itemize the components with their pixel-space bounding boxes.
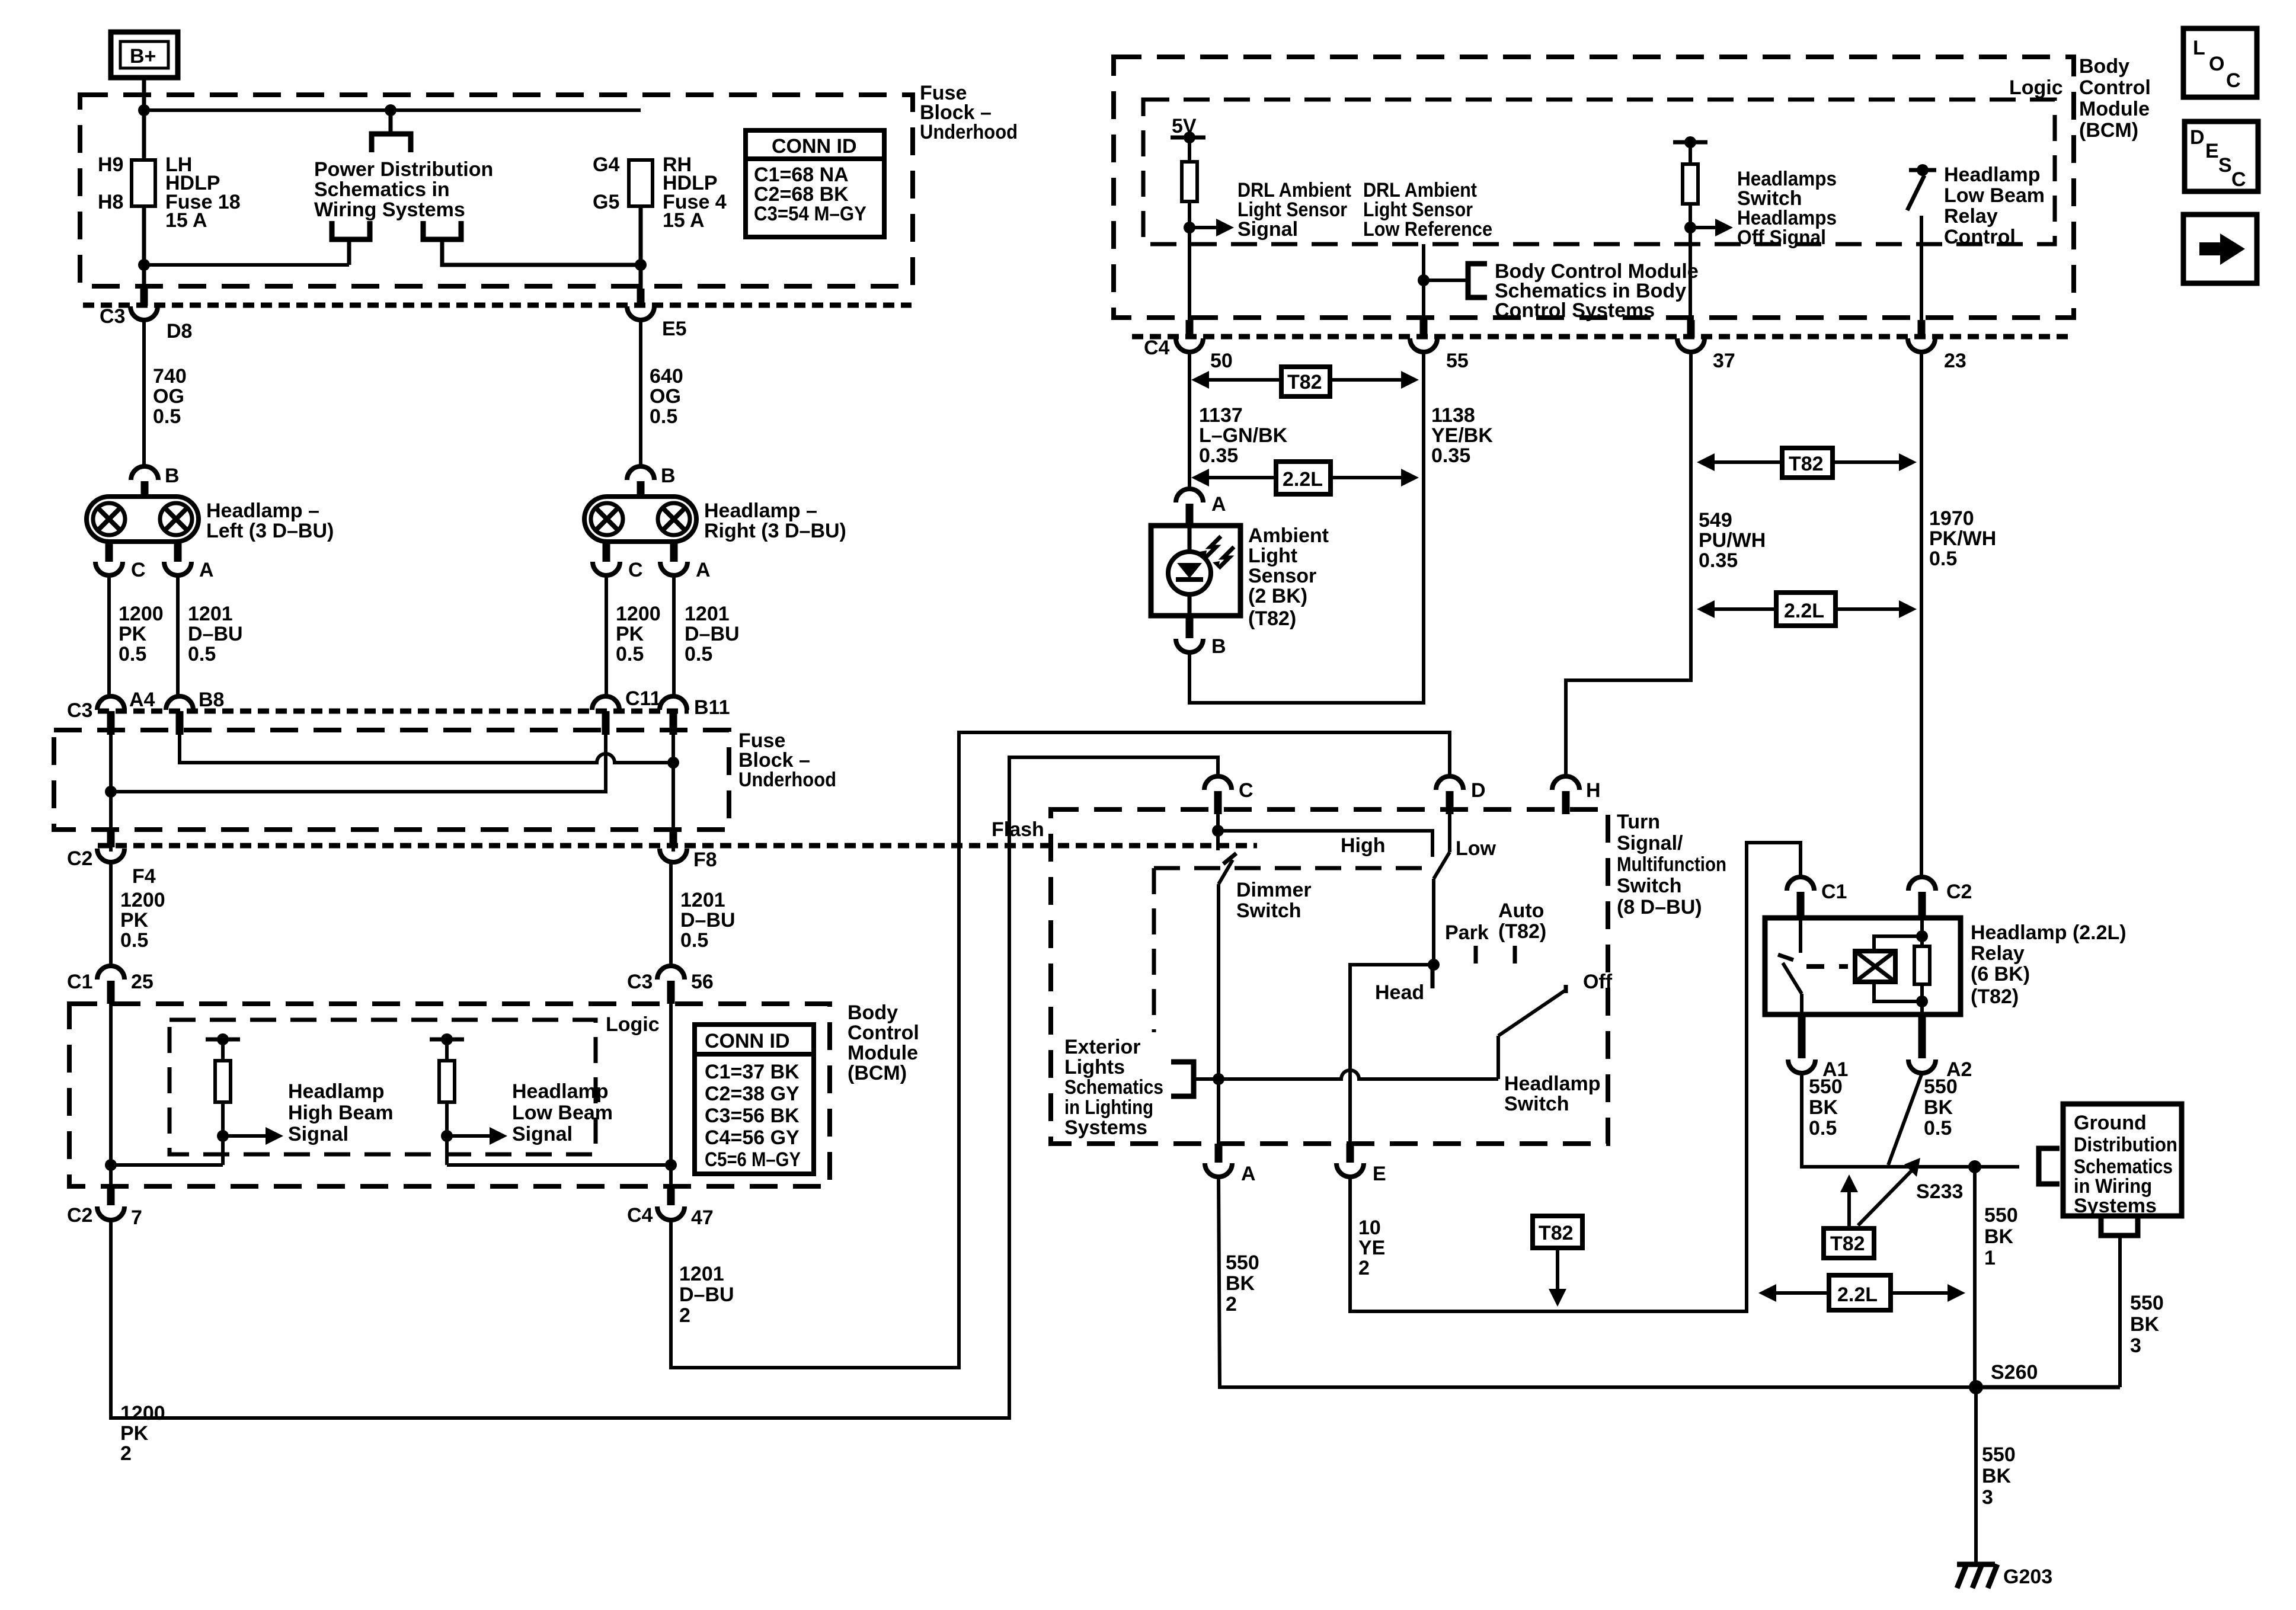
svg-text:Lights: Lights xyxy=(1064,1056,1125,1078)
stub C3/56 xyxy=(667,981,675,1004)
svg-text:550: 550 xyxy=(1924,1076,1958,1098)
svg-text:B: B xyxy=(1211,635,1226,658)
svg-text:S: S xyxy=(2218,154,2232,177)
lamp headlamp right (capsule) xyxy=(584,497,696,542)
svg-text:T82: T82 xyxy=(1789,453,1824,475)
wire 740 OG left headlamp feed xyxy=(142,320,146,466)
arrow headlamp high beam signal xyxy=(223,1127,283,1145)
value label 1138 YE/BK 0.35 xyxy=(1431,404,1493,467)
lamp headlamp left (capsule) xyxy=(87,497,199,542)
svg-text:D–BU: D–BU xyxy=(685,623,740,645)
node low beam signal tap xyxy=(441,1130,453,1142)
label Body Control Module (BCM) bottom xyxy=(848,1001,919,1084)
value label 550 BK 1 xyxy=(1984,1204,2018,1269)
relay actuation dashed link xyxy=(1806,964,1848,969)
svg-text:37: 37 xyxy=(1713,350,1735,372)
svg-text:C: C xyxy=(2231,168,2246,191)
svg-text:B: B xyxy=(165,465,180,487)
svg-text:(BCM): (BCM) xyxy=(848,1062,907,1084)
wire 1201 D-BU 2 (BCM to dimmer D) xyxy=(671,732,1450,1368)
svg-text:H: H xyxy=(1586,779,1601,802)
svg-text:Distribution: Distribution xyxy=(2074,1134,2177,1156)
stub H switch xyxy=(1562,791,1570,814)
svg-text:10: 10 xyxy=(1358,1217,1381,1239)
wire 1201 D-BU left high beam xyxy=(176,575,180,697)
value label 1201 D-BU 0.5 (right) xyxy=(685,603,740,665)
wire 10 YE 2 (E to relay C1) xyxy=(1350,843,1801,1311)
connector C3/A4 xyxy=(97,696,124,710)
svg-text:D: D xyxy=(1471,779,1486,802)
wire bracket stub left xyxy=(347,239,351,265)
svg-text:B11: B11 xyxy=(694,696,730,719)
label Turn Signal/Multifunction Switch (8 D-BU) xyxy=(1617,811,1726,918)
stub C11 xyxy=(602,711,610,735)
connector row 3 (dotted) xyxy=(98,843,1257,849)
connector 23 xyxy=(1908,338,1935,352)
svg-text:Schematics: Schematics xyxy=(1064,1076,1163,1099)
stub D switch xyxy=(1446,791,1454,814)
svg-text:Logic: Logic xyxy=(606,1013,660,1036)
connector E switch xyxy=(1336,1163,1364,1177)
stub C1/25 xyxy=(107,981,115,1004)
svg-text:A: A xyxy=(1241,1163,1256,1185)
node headlamps off signal tap xyxy=(1684,222,1696,233)
wire 1201 D-BU to BCM C3 xyxy=(669,862,673,968)
connector H multifunction switch xyxy=(1552,776,1579,790)
stub A4 xyxy=(107,711,115,735)
svg-text:CONN ID: CONN ID xyxy=(772,135,857,158)
stub C right lamp xyxy=(603,542,610,562)
svg-text:A: A xyxy=(696,559,711,581)
wire 550 BK 3 (box to S260) xyxy=(2118,1235,2122,1387)
stub A switch xyxy=(1215,1144,1223,1163)
svg-text:L–GN/BK: L–GN/BK xyxy=(1199,424,1288,447)
wire 1200 PK 2 (BCM to dimmer common C) xyxy=(111,757,1218,1418)
svg-text:15 A: 15 A xyxy=(663,209,705,232)
svg-text:A4: A4 xyxy=(129,689,155,711)
svg-text:Ground: Ground xyxy=(2074,1112,2147,1134)
bracket exterior lights xyxy=(1171,1062,1194,1096)
label Headlamp - Right (3 D-BU) xyxy=(704,500,846,542)
CONN ID table fuse block xyxy=(746,130,884,237)
stub connector 23 xyxy=(1918,320,1926,338)
svg-text:549: 549 xyxy=(1699,509,1732,532)
resistor headlamp high beam xyxy=(206,1033,240,1165)
connector C4/50 xyxy=(1176,338,1203,352)
svg-text:550: 550 xyxy=(1809,1076,1843,1098)
svg-text:Sensor: Sensor xyxy=(1248,565,1316,587)
svg-text:S233: S233 xyxy=(1916,1180,1963,1203)
wire coil to A2 (bottom link) xyxy=(1874,982,1922,1001)
connector A sensor xyxy=(1176,489,1203,502)
connector C4/47 xyxy=(657,1206,685,1220)
label Headlamp (2.2L) Relay (6 BK) (T82) xyxy=(1971,921,2126,1008)
svg-text:H9: H9 xyxy=(98,153,123,176)
stub connector 50 xyxy=(1186,320,1194,338)
svg-text:Ambient: Ambient xyxy=(1248,524,1329,547)
connector C1/25 xyxy=(97,966,124,980)
svg-text:Body: Body xyxy=(848,1001,898,1024)
connector E5 xyxy=(627,306,654,320)
arrow headlamp low beam signal xyxy=(447,1127,507,1145)
svg-text:C2: C2 xyxy=(67,1204,92,1227)
logic box (top BCM) xyxy=(1143,100,2055,244)
svg-text:PU/WH: PU/WH xyxy=(1699,529,1766,552)
svg-text:Control: Control xyxy=(848,1022,919,1044)
relay contact switch xyxy=(1778,918,1802,1014)
node junction below fuse 18 xyxy=(138,259,150,271)
svg-text:0.5: 0.5 xyxy=(188,643,216,665)
stub B sensor xyxy=(1186,616,1194,638)
fuse F4 RH HDLP (G4/G5) xyxy=(629,160,653,206)
svg-text:Flash: Flash xyxy=(992,818,1044,841)
svg-text:Multifunction: Multifunction xyxy=(1617,853,1726,876)
svg-text:G4: G4 xyxy=(593,153,619,176)
value label 549 PU/WH 0.35 xyxy=(1699,509,1766,572)
svg-text:Switch: Switch xyxy=(1236,900,1302,922)
svg-text:Underhood: Underhood xyxy=(920,121,1018,143)
low beam blade (D to head junction) xyxy=(1434,814,1450,965)
CONN ID table BCM xyxy=(695,1025,814,1174)
connector C2/F4 xyxy=(97,849,124,862)
wire stub to power distribution bracket xyxy=(389,110,393,134)
svg-text:BK: BK xyxy=(1984,1225,2014,1248)
takeout T82 (10 YE wire) xyxy=(1533,1216,1582,1307)
wire fuse H8 down to junction xyxy=(142,206,146,308)
stub connector 37 xyxy=(1687,320,1695,338)
connector row BCM top (dotted) xyxy=(1132,334,2068,340)
wire A4 to C2/F4 xyxy=(109,726,113,852)
svg-text:0.5: 0.5 xyxy=(120,929,148,952)
svg-text:C4: C4 xyxy=(1144,337,1170,359)
battery feed B+ xyxy=(111,32,178,78)
wire 550 BK A2 diagonal to splice xyxy=(1888,1073,1922,1165)
svg-text:2.2L: 2.2L xyxy=(1837,1283,1878,1306)
svg-text:E5: E5 xyxy=(662,318,687,340)
svg-text:T82: T82 xyxy=(1287,371,1322,393)
connector C multifunction switch xyxy=(1204,776,1232,790)
svg-text:Control: Control xyxy=(2079,76,2151,99)
svg-text:640: 640 xyxy=(650,365,683,388)
contact park tick xyxy=(1474,946,1478,964)
svg-text:Headlamp –: Headlamp – xyxy=(704,500,817,522)
svg-text:Switch: Switch xyxy=(1504,1093,1569,1115)
legend box forward arrow xyxy=(2183,215,2257,283)
connector D multifunction switch xyxy=(1436,776,1463,790)
label Fuse Block - Underhood (top) xyxy=(920,82,1018,143)
wire B11 to F8 xyxy=(671,726,675,852)
value label 550 BK 3 (bottom) xyxy=(1982,1443,2016,1509)
svg-text:C4: C4 xyxy=(627,1204,653,1227)
svg-text:(8 D–BU): (8 D–BU) xyxy=(1617,896,1702,918)
svg-text:F4: F4 xyxy=(132,865,156,888)
svg-text:Dimmer: Dimmer xyxy=(1236,879,1312,901)
svg-text:G5: G5 xyxy=(593,191,619,213)
connector C11 xyxy=(592,696,619,710)
svg-text:D–BU: D–BU xyxy=(680,909,736,932)
label Power Distribution Schematics in Wiring Systems xyxy=(314,158,493,221)
label DRL Ambient Light Sensor Low Reference xyxy=(1363,179,1492,241)
svg-text:Switch: Switch xyxy=(1617,875,1682,897)
svg-text:C3: C3 xyxy=(100,305,125,328)
legend box DESC xyxy=(2185,121,2258,191)
svg-text:(T82): (T82) xyxy=(1248,607,1296,630)
value label 1200 PK 2 xyxy=(120,1402,165,1465)
contact head stub xyxy=(1431,965,1435,988)
label Headlamp - Left (3 D-BU) xyxy=(206,500,334,542)
svg-text:PK: PK xyxy=(120,909,149,932)
stub C1 relay xyxy=(1797,892,1805,919)
svg-text:Relay: Relay xyxy=(1944,205,1998,228)
svg-text:G203: G203 xyxy=(2003,1566,2052,1588)
connector F8 xyxy=(660,849,687,862)
svg-text:Auto: Auto xyxy=(1498,900,1544,922)
ground G203 xyxy=(1957,1564,1997,1588)
svg-text:Systems: Systems xyxy=(2074,1195,2157,1217)
contact auto tick xyxy=(1513,946,1517,964)
svg-text:0.5: 0.5 xyxy=(1924,1117,1952,1140)
svg-text:(T82): (T82) xyxy=(1971,985,2019,1008)
svg-text:T82: T82 xyxy=(1539,1222,1574,1244)
svg-text:L: L xyxy=(2193,37,2205,59)
fuse block underhood box (top) xyxy=(80,95,913,286)
svg-text:Right (3 D–BU): Right (3 D–BU) xyxy=(704,520,846,542)
connector A2 relay xyxy=(1908,1060,1936,1073)
svg-text:1970: 1970 xyxy=(1929,507,1974,530)
label Auto (T82) xyxy=(1498,900,1546,943)
svg-text:Relay: Relay xyxy=(1971,942,2025,965)
value label 1970 PK/WH 0.5 xyxy=(1929,507,1996,570)
node DRL signal tap xyxy=(1184,222,1195,233)
svg-text:Body: Body xyxy=(2079,55,2129,78)
svg-text:BK: BK xyxy=(2130,1313,2160,1336)
resistor DRL pull-up xyxy=(1182,137,1197,337)
svg-text:BK: BK xyxy=(1809,1096,1838,1119)
wire bracket stub right to fuse 4 xyxy=(442,239,641,265)
svg-text:Left (3 D–BU): Left (3 D–BU) xyxy=(206,520,334,542)
node flash tap xyxy=(1212,825,1224,837)
stub A sensor xyxy=(1186,504,1194,527)
wire 550 BK 3 (S260 to G203) xyxy=(1974,1387,1978,1563)
svg-text:in Lighting: in Lighting xyxy=(1064,1096,1153,1119)
svg-text:0.5: 0.5 xyxy=(119,643,146,665)
svg-text:Module: Module xyxy=(2079,98,2150,120)
svg-text:Wiring Systems: Wiring Systems xyxy=(314,199,465,221)
node headlamps-off supply bar xyxy=(1673,140,1707,145)
label Body Control Module (BCM) top right xyxy=(2079,55,2151,142)
wire 1970 PK/WH (23 to relay C2) xyxy=(1920,351,1923,877)
switch headlamp low beam relay control xyxy=(1907,164,1936,337)
svg-text:BK: BK xyxy=(1924,1096,1953,1119)
label Headlamps Switch Headlamps Off Signal xyxy=(1737,168,1837,249)
svg-text:Low Reference: Low Reference xyxy=(1363,218,1492,241)
ambient light sensor (photodiode) xyxy=(1151,526,1240,616)
value label RH HDLP Fuse 4 15 A xyxy=(663,153,727,232)
value label 550 BK 0.5 (A1) xyxy=(1809,1076,1843,1140)
stub B right lamp xyxy=(637,481,645,498)
label Headlamp Low Beam Signal xyxy=(512,1080,613,1145)
wire 1200 PK to BCM C1 xyxy=(109,862,113,968)
takeout 2.2L (bottom) xyxy=(1758,1275,1965,1310)
node junction below fuse 4 xyxy=(635,259,647,271)
connector B headlamp left xyxy=(131,466,158,480)
svg-text:2: 2 xyxy=(679,1304,690,1327)
node junction A4/C11 tie xyxy=(105,786,117,798)
relay K headlamp (2.2L) box xyxy=(1765,918,1961,1014)
svg-text:1137: 1137 xyxy=(1199,404,1243,427)
svg-text:56: 56 xyxy=(691,971,714,993)
svg-text:B: B xyxy=(661,465,676,487)
svg-text:(2 BK): (2 BK) xyxy=(1248,585,1307,607)
svg-text:(BCM): (BCM) xyxy=(2079,119,2138,142)
wire C1/25 through BCM xyxy=(109,1004,113,1186)
svg-text:A: A xyxy=(1211,493,1226,516)
wire low reference inside BCM xyxy=(1422,244,1425,337)
wire 550 BK 1 (S233 to S260) xyxy=(1973,1167,1977,1387)
svg-text:Underhood: Underhood xyxy=(738,769,836,791)
resistor headlamps switch pull-up xyxy=(1683,142,1698,337)
svg-text:Control Systems: Control Systems xyxy=(1495,299,1655,322)
svg-text:15 A: 15 A xyxy=(165,209,207,232)
stub B left lamp xyxy=(141,481,149,498)
svg-text:0.5: 0.5 xyxy=(685,643,712,665)
value label 1137 L-GN/BK 0.35 xyxy=(1199,404,1288,467)
svg-text:2: 2 xyxy=(120,1442,132,1465)
svg-text:50: 50 xyxy=(1210,350,1233,372)
wire ground bus S260 xyxy=(1977,1385,2120,1390)
takeout T82 with arrows (S233) xyxy=(1824,1158,1920,1258)
svg-text:1200: 1200 xyxy=(120,1402,165,1425)
svg-text:Signal/: Signal/ xyxy=(1617,832,1683,854)
stub connector 55 xyxy=(1420,320,1428,338)
svg-text:Headlamp: Headlamp xyxy=(1944,164,2041,186)
svg-text:YE: YE xyxy=(1358,1237,1385,1259)
node junction at B+ wire xyxy=(138,104,150,116)
wire dimmer common (C to blade) xyxy=(1216,814,1220,850)
connector 37 xyxy=(1677,338,1705,352)
wire fuse G5 down to junction xyxy=(639,206,643,308)
node dimmer common / exterior lights tie xyxy=(1213,1073,1224,1085)
svg-text:High Beam: High Beam xyxy=(288,1102,394,1124)
svg-text:C3=56 BK: C3=56 BK xyxy=(705,1105,800,1127)
value label 1200 PK 0.5 (left) xyxy=(119,603,164,665)
svg-text:OG: OG xyxy=(650,385,681,408)
wire exterior lights feed (with hop over head wire) xyxy=(1194,1070,1498,1079)
svg-text:Low Beam: Low Beam xyxy=(512,1102,613,1124)
wire 640 OG right headlamp feed xyxy=(639,320,642,466)
svg-text:Low Beam: Low Beam xyxy=(1944,184,2045,207)
resistor headlamp low beam xyxy=(430,1033,464,1165)
svg-text:Headlamp –: Headlamp – xyxy=(206,500,319,522)
wire 1200 PK right low beam xyxy=(605,575,608,697)
svg-text:Off Signal: Off Signal xyxy=(1737,226,1826,249)
connector A switch xyxy=(1205,1163,1232,1177)
svg-text:C: C xyxy=(2226,69,2241,92)
label Headlamp Switch xyxy=(1504,1073,1601,1115)
stub C switch xyxy=(1214,791,1222,814)
connector C right lamp xyxy=(593,562,620,575)
svg-text:C1=37 BK: C1=37 BK xyxy=(705,1061,800,1083)
svg-text:O: O xyxy=(2209,53,2224,75)
svg-text:0.5: 0.5 xyxy=(153,405,181,428)
relay coil xyxy=(1855,951,1895,982)
svg-text:1200: 1200 xyxy=(119,603,164,625)
node high beam logic tie xyxy=(105,1159,117,1171)
svg-text:Control: Control xyxy=(1944,226,2016,248)
connector A right lamp xyxy=(660,562,687,575)
value label 640 OG 0.5 xyxy=(650,365,683,428)
svg-text:S260: S260 xyxy=(1991,1361,2038,1384)
resistor relay suppression xyxy=(1914,918,1930,1014)
body control module box (top) xyxy=(1114,57,2074,318)
connector B headlamp right xyxy=(627,466,654,480)
wire 1201 D-BU right high beam xyxy=(672,575,676,697)
svg-text:Schematics in: Schematics in xyxy=(314,178,450,201)
svg-text:OG: OG xyxy=(153,385,184,408)
svg-text:C2: C2 xyxy=(1946,881,1972,903)
svg-text:D–BU: D–BU xyxy=(188,623,243,645)
logic box (bottom BCM) xyxy=(170,1020,596,1154)
takeout T82 (37-23) xyxy=(1697,448,1917,478)
svg-text:PK/WH: PK/WH xyxy=(1929,527,1996,550)
value label 1200 PK 0.5 (to BCM) xyxy=(120,889,165,952)
svg-text:C: C xyxy=(628,559,643,581)
wire flash to high contact xyxy=(1218,831,1432,857)
bracket ground distribution xyxy=(2039,1148,2060,1184)
svg-text:Headlamp: Headlamp xyxy=(288,1080,385,1103)
stub C2/F4 xyxy=(107,832,115,847)
svg-text:1201: 1201 xyxy=(188,603,233,625)
wire 550 BK A1 to ground bus xyxy=(1802,1073,2019,1167)
svg-text:7: 7 xyxy=(131,1206,142,1229)
svg-text:Signal: Signal xyxy=(1237,218,1298,241)
svg-text:550: 550 xyxy=(1984,1204,2018,1227)
svg-text:550: 550 xyxy=(2130,1292,2164,1314)
svg-text:(6 BK): (6 BK) xyxy=(1971,963,2030,985)
node splice S260 xyxy=(1969,1380,1983,1394)
label Headlamp High Beam Signal xyxy=(288,1080,394,1145)
wire 1200 PK left low beam xyxy=(107,575,111,697)
svg-text:1200: 1200 xyxy=(616,603,661,625)
stub A2 relay xyxy=(1918,1014,1926,1058)
svg-text:PK: PK xyxy=(120,1422,149,1445)
svg-text:3: 3 xyxy=(1982,1486,1993,1509)
stub A right lamp xyxy=(670,542,678,562)
svg-text:C2=38 GY: C2=38 GY xyxy=(705,1083,800,1105)
bracket below ground distribution box xyxy=(2101,1216,2138,1235)
legend box LOC xyxy=(2183,28,2257,97)
svg-text:Module: Module xyxy=(848,1042,918,1064)
wire high beam chain to main xyxy=(111,1163,223,1167)
reference box Ground Distribution Schematics in Wiring Systems xyxy=(2063,1104,2182,1217)
stub F8 xyxy=(670,832,677,847)
svg-text:Logic: Logic xyxy=(2009,76,2063,99)
takeout 2.2L (50-55) xyxy=(1191,462,1419,494)
svg-text:Signal: Signal xyxy=(512,1123,573,1145)
connector row 2 (dotted) xyxy=(98,709,689,714)
stub B8 xyxy=(176,711,184,735)
node junction B8/B11 tie xyxy=(667,757,679,769)
svg-text:2.2L: 2.2L xyxy=(1283,468,1323,491)
svg-text:High: High xyxy=(1341,834,1386,857)
svg-text:B8: B8 xyxy=(199,689,224,711)
wire tie A4 to C11 xyxy=(111,726,606,792)
svg-text:0.35: 0.35 xyxy=(1431,444,1470,467)
bracket power distribution (bottom left) xyxy=(332,221,370,239)
svg-text:55: 55 xyxy=(1446,350,1469,372)
svg-text:D–BU: D–BU xyxy=(679,1283,734,1306)
svg-text:Low: Low xyxy=(1456,837,1496,860)
